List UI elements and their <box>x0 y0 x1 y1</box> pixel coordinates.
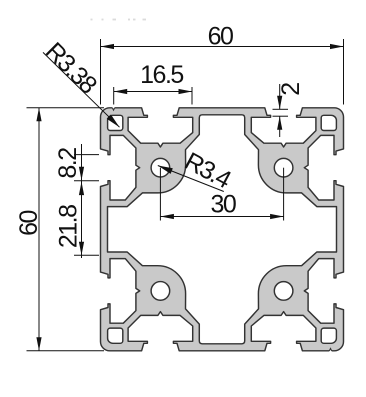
dimension 8.2 <box>54 144 99 258</box>
leader R3.38 <box>40 37 120 127</box>
svg-text:8.2: 8.2 <box>54 148 82 179</box>
dimension 16.5 <box>114 61 192 105</box>
dimension 2 <box>273 83 306 137</box>
face nick bottom right <box>329 348 331 351</box>
svg-text:2: 2 <box>277 83 305 96</box>
face nick top left <box>112 107 114 110</box>
faint cropped marks top <box>91 19 93 21</box>
svg-text:60: 60 <box>208 23 233 51</box>
dimension 60 top <box>101 23 344 105</box>
svg-text:30: 30 <box>210 191 235 219</box>
leader R3.4 <box>158 147 236 194</box>
profile body 6060 cross-section <box>101 108 344 351</box>
svg-text:16.5: 16.5 <box>140 61 183 89</box>
dimension 30 <box>160 168 283 221</box>
dimension 21.8 <box>55 182 100 256</box>
dimension 60 left <box>15 108 104 351</box>
svg-text:60: 60 <box>15 211 43 236</box>
svg-text:21.8: 21.8 <box>55 205 83 248</box>
